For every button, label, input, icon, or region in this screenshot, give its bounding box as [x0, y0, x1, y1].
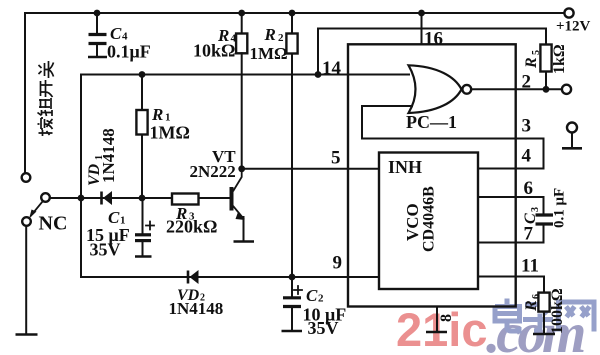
- node R5 branch: [315, 71, 322, 78]
- resistor R5: [540, 45, 551, 93]
- svg-text:0.1μF: 0.1μF: [107, 42, 151, 62]
- wire collector to pin5: [242, 168, 379, 170]
- wire VD1 row: [50, 197, 230, 199]
- svg-text:R: R: [151, 105, 163, 124]
- label C1 15uF 35V: [86, 208, 130, 260]
- node collector: [238, 165, 245, 172]
- svg-text:R: R: [523, 57, 540, 69]
- svg-text:R: R: [523, 300, 540, 312]
- wire pin11: [478, 276, 544, 278]
- label R1 1MΩ: [150, 105, 190, 143]
- svg-text:100kΩ: 100kΩ: [549, 288, 566, 334]
- NOR gate PC-1: [409, 65, 472, 113]
- wire feedback loop pin3: [362, 106, 544, 139]
- terminal pin2 out: [562, 85, 571, 94]
- svg-text:3: 3: [522, 116, 532, 137]
- wire pin4 link: [478, 139, 544, 169]
- svg-text:35V: 35V: [308, 318, 339, 338]
- label VT 2N222: [190, 147, 237, 181]
- label 按钮开关 (vertical): [38, 61, 54, 136]
- node VD1 right / C1 top: [139, 195, 146, 202]
- svg-text:16: 16: [424, 29, 443, 50]
- svg-text:INH: INH: [388, 157, 422, 177]
- 网: [559, 302, 595, 332]
- svg-text:1MΩ: 1MΩ: [250, 44, 288, 63]
- wire +12V top rail: [25, 12, 564, 14]
- wire left loop vertical: [80, 75, 82, 278]
- wire pin7: [478, 242, 544, 244]
- svg-text:1N4148: 1N4148: [169, 299, 224, 318]
- wire gate feedback input: [362, 105, 412, 107]
- resistor R3: [172, 194, 199, 205]
- transistor VT 2N222: [230, 169, 255, 242]
- terminal +12V: [556, 8, 591, 34]
- capacitor C4: [88, 10, 107, 57]
- pin 16 stem: [418, 10, 425, 45]
- node VD1 left: [78, 195, 85, 202]
- svg-text:10kΩ: 10kΩ: [193, 41, 235, 61]
- svg-text:14: 14: [322, 58, 342, 79]
- 关: [39, 61, 54, 78]
- wire pin2 output: [472, 88, 562, 90]
- svg-text:5: 5: [531, 50, 542, 55]
- label C4 0.1uF: [107, 24, 151, 62]
- diode VD1: [102, 191, 113, 205]
- 钮: [38, 110, 53, 116]
- wire pin6: [478, 196, 544, 198]
- svg-text:2N222: 2N222: [190, 162, 236, 181]
- svg-text:11: 11: [521, 256, 539, 277]
- label R6 100kΩ (vertical): [523, 288, 566, 334]
- svg-text:5: 5: [331, 148, 341, 169]
- svg-text:35V: 35V: [90, 240, 121, 260]
- svg-text:NC: NC: [39, 213, 68, 235]
- capacitor C2: [282, 274, 303, 331]
- 开: [41, 80, 53, 97]
- svg-text:VCO: VCO: [403, 203, 422, 241]
- wire pin14 rail: [81, 74, 409, 76]
- svg-text:7: 7: [524, 224, 534, 245]
- svg-text:CD4046B: CD4046B: [421, 186, 438, 252]
- terminal grounded ref: [562, 123, 582, 149]
- label R2 1MΩ: [250, 25, 288, 63]
- svg-text:6: 6: [524, 178, 534, 199]
- 电: [495, 299, 520, 332]
- svg-text:R: R: [264, 25, 276, 44]
- svg-text:2: 2: [318, 293, 324, 305]
- svg-text:220kΩ: 220kΩ: [166, 217, 217, 237]
- svg-text:1N4148: 1N4148: [99, 128, 118, 183]
- svg-text:+12V: +12V: [556, 19, 591, 35]
- wire pin9 row with VD2: [81, 276, 379, 278]
- svg-text:C: C: [522, 213, 539, 224]
- capacitor C1: [135, 198, 154, 257]
- svg-text:4: 4: [522, 146, 532, 167]
- resistor R6: [533, 277, 555, 335]
- label VD2 1N4148: [169, 287, 224, 318]
- resistor R4: [236, 10, 247, 169]
- pin 8 ground: [426, 307, 447, 333]
- svg-text:9: 9: [333, 253, 343, 274]
- capacitor C3: [536, 197, 554, 243]
- 子: [523, 305, 553, 332]
- switch SB (push button): [16, 173, 50, 334]
- label R4 10kΩ: [193, 26, 237, 61]
- svg-text:C: C: [306, 286, 318, 305]
- resistor R2: [286, 10, 297, 277]
- svg-text:3: 3: [530, 207, 541, 212]
- 按: [38, 118, 53, 136]
- svg-text:C: C: [110, 24, 122, 43]
- resistor R1: [136, 71, 147, 198]
- label R3 220kΩ: [166, 204, 217, 237]
- svg-text:1kΩ: 1kΩ: [551, 44, 568, 74]
- diode VD2: [188, 270, 199, 284]
- VCO inner box: [379, 153, 478, 290]
- svg-text:2: 2: [278, 32, 284, 44]
- svg-text:6: 6: [531, 294, 542, 299]
- svg-text:1MΩ: 1MΩ: [150, 123, 190, 143]
- svg-text:2: 2: [522, 72, 532, 93]
- wire R5 branch: [318, 29, 546, 75]
- wire left drop to switch: [24, 13, 26, 173]
- svg-text:PC—1: PC—1: [406, 112, 457, 132]
- label VD1 1N4148 (vertical): [86, 128, 118, 186]
- label C3 0.1uF (vertical): [522, 188, 568, 228]
- label R5 1kΩ (vertical): [523, 44, 568, 74]
- IC outer box CD4046B: [348, 44, 516, 306]
- svg-text:8: 8: [438, 314, 455, 322]
- svg-text:0.1 μF: 0.1 μF: [552, 188, 568, 228]
- label C2 10uF 35V: [303, 286, 347, 338]
